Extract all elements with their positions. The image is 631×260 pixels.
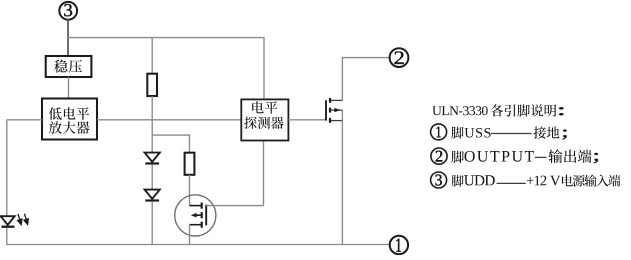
diode D1 [145,153,160,162]
wire D2 to bottom rail [151,202,153,245]
wire Q2 source to bottom rail [189,225,191,245]
mosfet Q1 drain lead [331,99,342,101]
wire detector bottom to Q2 gate [206,141,263,206]
box regulator (稳压) [46,56,92,77]
mosfet Q2 body bar with arrow [191,213,197,218]
box low-level amplifier (低电平放大器) [42,99,97,140]
wire left rail horizontal [7,119,42,121]
photodiode [1,216,15,225]
wire regulator to amplifier [68,77,70,99]
wire detector to Q1 gate [288,119,325,121]
wire left rail lower [6,228,8,245]
mosfet Q1 source lead [331,120,342,122]
terminal pin 3 (UDD) [59,2,77,20]
terminal pin 1 (USS) [390,236,408,254]
mosfet Q1 gate bar [325,100,327,120]
mosfet Q2 source bar [190,224,202,226]
terminal pin 2 (OUTPUT) [390,48,409,67]
mosfet Q1 body lead with arrow [331,109,342,111]
legend pin3 symbol [431,172,447,188]
wire branch to R2 [152,135,189,153]
wire amplifier to level detector [97,119,241,121]
wire rail to R1 [151,38,153,74]
legend pin2 text [451,151,464,163]
legend pin2 symbol [431,148,447,164]
wire pin3 to regulator [67,19,69,56]
wire Q1 source to bottom rail [341,110,343,244]
wire left rail upper [6,120,8,217]
resistor R1 [147,74,157,96]
legend pin3 text [452,175,464,187]
resistor R2 [185,153,195,175]
wire bottom rail [7,244,390,246]
mosfet Q2 envelope circle [175,195,216,236]
mosfet Q2 gate bar [205,205,207,226]
box level detector (电平探测器) [241,99,288,140]
legend pin1 text [451,127,463,139]
legend pin1 symbol [431,124,447,140]
legend title ULN-3330 pin description [432,106,487,115]
wire D1 to D2 [151,165,153,190]
mosfet Q1 channel ticks [329,98,331,103]
wire Q1 drain to pin 2 [342,58,389,101]
wire top supply rail to level-detector [68,38,264,100]
mosfet Q2 drain bar [190,205,202,207]
diode D2 [145,190,160,199]
wire R2 to Q2 drain [189,175,191,206]
wire R1 to diode D1 [151,96,153,153]
